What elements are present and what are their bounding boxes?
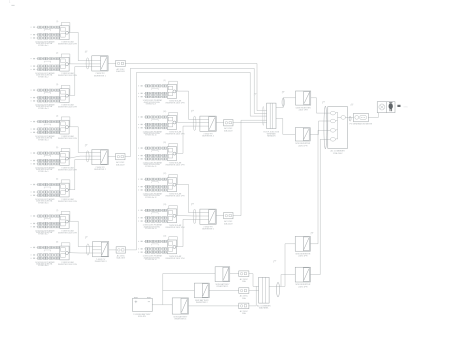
- AC disconnect D3: [116, 247, 125, 253]
- svg-text:240V 1PH: 240V 1PH: [298, 145, 308, 147]
- inverter G6 box: [60, 183, 69, 197]
- inverter I2 label: [295, 143, 311, 147]
- wire M1 to T4: [176, 91, 200, 119]
- PV string group M6: module rows: [138, 240, 167, 253]
- svg-text:240V 1PH: 240V 1PH: [298, 286, 308, 288]
- wire T5 to D5: [216, 215, 223, 217]
- AC disconnect D1: [116, 60, 125, 66]
- AC disconnect d2: [239, 288, 249, 294]
- wireway label: [264, 131, 280, 137]
- inverter G8 box: [60, 246, 69, 260]
- inverter G7 AC whip and junction: [56, 210, 70, 223]
- PV string group G3: module rows: [31, 89, 60, 102]
- wire bus to B1: [163, 273, 215, 275]
- AC disconnect d1 label: [240, 278, 249, 283]
- group M2 labels: [143, 130, 185, 136]
- wire wireway to I1: [276, 98, 296, 108]
- generation meter label: [350, 123, 373, 126]
- inverter G2 box: [60, 57, 69, 71]
- svg-text:STRING No.5: STRING No.5: [38, 171, 48, 173]
- string inverter T3: [93, 242, 109, 257]
- svg-text:60A PANEL: 60A PANEL: [259, 307, 269, 310]
- riser tag above I3: [311, 232, 313, 234]
- group M2 jumper bracket: [152, 120, 159, 121]
- svg-text:INVERTER 240V 1PH: INVERTER 240V 1PH: [58, 170, 77, 172]
- AC disconnect D2 label: [116, 161, 125, 166]
- group M5 labels: [143, 224, 185, 230]
- svg-text:INVERTER 1: INVERTER 1: [217, 286, 230, 288]
- string inverter T1: [92, 56, 108, 71]
- svg-text:INVERTER 240V 1PH: INVERTER 240V 1PH: [166, 227, 185, 229]
- battery inverter B1 label: [215, 283, 230, 288]
- svg-text:INVERTER 240V 1PH: INVERTER 240V 1PH: [58, 201, 77, 203]
- backup panel label: [257, 305, 271, 310]
- group M1 jumper bracket: [152, 88, 159, 89]
- battery inverter B2 label: [195, 299, 210, 304]
- battery BT: [133, 297, 153, 311]
- AC disconnect d3: [239, 303, 249, 309]
- wire G8 to T3: [69, 252, 93, 254]
- wire B2 to d2: [209, 290, 239, 292]
- wire I4 riser to combiner: [310, 139, 330, 274]
- group G1 labels: [35, 41, 77, 47]
- backup panel BP: [259, 277, 270, 303]
- string inverter T5 label: [202, 227, 215, 231]
- inverter M5 box: [167, 209, 176, 223]
- group G2 labels: [35, 72, 77, 78]
- inverter G8 AC whip and junction: [56, 241, 70, 254]
- inverter G3 box: [60, 89, 69, 103]
- AC disconnect D5: [224, 213, 233, 219]
- conduit C1: [86, 58, 89, 69]
- inverter I1 label: [296, 107, 312, 111]
- wire panel branch to I4: [281, 275, 295, 287]
- group M5 jumper bracket: [152, 213, 159, 214]
- inverter M4 box: [167, 178, 176, 192]
- PV string group M2: module rows: [138, 116, 167, 129]
- svg-text:(12): (12): [163, 173, 167, 175]
- svg-text:240V 1PH: 240V 1PH: [299, 110, 309, 112]
- inverter I4: [295, 267, 310, 282]
- string inverter T5: [200, 209, 216, 224]
- inverter G1 AC whip and junction: [56, 21, 70, 34]
- string inverter T3 label: [95, 259, 108, 263]
- inverter M1 box: [167, 85, 176, 99]
- svg-text:STRING No.4: STRING No.4: [38, 139, 48, 141]
- inverter M6 box: [167, 240, 176, 254]
- wire battery to B3: [152, 304, 172, 306]
- svg-text:(11): (11): [163, 142, 166, 144]
- svg-text:240V 1PH: 240V 1PH: [298, 256, 308, 258]
- conduit left of wireway: [262, 106, 264, 125]
- conduit C2: [86, 151, 89, 162]
- AC disconnect D3 label: [116, 254, 125, 259]
- string inverter T4: [200, 116, 216, 131]
- string inverter T1 label: [94, 73, 107, 77]
- svg-text:(14): (14): [163, 235, 167, 237]
- sheet corner note: [9, 1, 15, 6]
- wire B3 to d3: [189, 305, 239, 307]
- AC run D5 to wireway: [233, 120, 267, 215]
- PV string group G2: module rows: [31, 58, 60, 71]
- inverter G7 box: [60, 215, 69, 229]
- AC run D2 to wireway: [125, 68, 267, 156]
- svg-text:INVERTER 240V 1PH: INVERTER 240V 1PH: [58, 138, 77, 140]
- svg-text:STRING No.9: STRING No.9: [146, 104, 156, 106]
- svg-text:STRING No.13: STRING No.13: [145, 228, 156, 230]
- group G5 labels: [35, 166, 77, 172]
- utility label: [397, 105, 400, 107]
- PV string group G8: module rows: [31, 246, 60, 259]
- AC disconnect D5 label: [224, 220, 233, 225]
- svg-text:INVERTER 240V 1PH: INVERTER 240V 1PH: [58, 107, 77, 109]
- battery inverter B1: [215, 267, 230, 282]
- svg-text:STRING No.3: STRING No.3: [38, 108, 48, 110]
- PV string group M3: module rows: [138, 147, 167, 160]
- inverter I3 label: [295, 253, 311, 257]
- svg-text:INVERTER 2: INVERTER 2: [94, 169, 107, 171]
- group M6 labels: [143, 255, 185, 261]
- svg-text:STRING No.12: STRING No.12: [145, 197, 156, 199]
- bottom conduit: [277, 282, 280, 297]
- wire G5 to T2: [69, 156, 92, 158]
- group M3 labels: [143, 161, 185, 167]
- inverter M3 box: [167, 147, 176, 161]
- svg-text:INVERTER 240V 1PH: INVERTER 240V 1PH: [166, 165, 185, 167]
- group M6 jumper bracket: [152, 244, 159, 245]
- group G8 labels: [35, 261, 77, 267]
- inverter M1 AC whip and junction: [163, 80, 177, 93]
- conduit C5: [193, 209, 196, 224]
- svg-text:INVERTER 1: INVERTER 1: [94, 75, 107, 77]
- inverter G3 AC whip and junction: [56, 84, 70, 97]
- battery inverter B2: [194, 283, 209, 298]
- battery inverter B3: [172, 298, 188, 314]
- svg-text:(10): (10): [163, 111, 167, 113]
- string inverter T2: [92, 150, 108, 165]
- PV string group M1: module rows: [138, 85, 167, 98]
- group M3 jumper bracket: [152, 151, 159, 152]
- inverter G4 box: [60, 120, 69, 134]
- group M4 labels: [143, 193, 185, 199]
- svg-text:PV GENERATION METER: PV GENERATION METER: [350, 123, 373, 126]
- wire M5 to T5: [176, 215, 200, 218]
- svg-text:INVERTER 3: INVERTER 3: [174, 319, 187, 321]
- svg-text:NEMA 3R: NEMA 3R: [267, 135, 276, 138]
- svg-text:STRING No.11: STRING No.11: [145, 166, 156, 168]
- group G8 jumper bracket: [44, 250, 51, 251]
- battery label: [133, 313, 151, 318]
- svg-text:STRING No.6: STRING No.6: [38, 202, 48, 204]
- svg-text:STRING No.10: STRING No.10: [145, 135, 156, 137]
- AC disconnect d1: [239, 271, 249, 277]
- AC run D4 to wireway: [233, 122, 267, 124]
- inverter G4 AC whip and junction: [56, 116, 70, 129]
- wire bus to B2: [163, 290, 195, 292]
- PV string group M5: module rows: [138, 209, 167, 222]
- inverter I4 label: [295, 284, 311, 288]
- svg-text:(13): (13): [163, 204, 167, 206]
- svg-text:ESS 48V: ESS 48V: [138, 316, 146, 318]
- group M1 labels: [143, 99, 185, 105]
- battery inverter B3 label: [173, 315, 188, 320]
- svg-text:STRING No.1: STRING No.1: [38, 45, 48, 47]
- PV string group G4: module rows: [31, 121, 60, 134]
- wire M3 to T4: [176, 126, 200, 153]
- conduit C3: [86, 244, 89, 255]
- svg-text:60A 240V: 60A 240V: [116, 163, 125, 166]
- string inverter T2 label: [94, 167, 107, 171]
- svg-text:INVERTER 240V 1PH: INVERTER 240V 1PH: [166, 258, 185, 260]
- group G7 jumper bracket: [44, 219, 51, 220]
- AC run D1 to wireway: [125, 64, 266, 111]
- inverter M3 AC whip and junction: [163, 142, 177, 155]
- AC combiner panel CP: [328, 107, 348, 149]
- svg-text:60A 240V: 60A 240V: [116, 257, 125, 260]
- svg-text:INVERTER 4: INVERTER 4: [202, 136, 215, 138]
- svg-text:INVERTER 240V 1PH: INVERTER 240V 1PH: [166, 102, 185, 104]
- svg-text:INVERTER 240V 1PH: INVERTER 240V 1PH: [58, 233, 77, 235]
- AC disconnect D2: [116, 154, 125, 160]
- utility meter and pole US: [377, 102, 395, 113]
- svg-text:STRING No.2: STRING No.2: [38, 76, 48, 78]
- svg-text:STRING No.8: STRING No.8: [38, 265, 48, 267]
- wire G6 to T2: [69, 160, 92, 190]
- combiner conduit: [324, 106, 327, 149]
- wire G2 to T1: [69, 63, 92, 65]
- group G7 labels: [35, 229, 77, 235]
- wire G7 to T3: [69, 221, 93, 246]
- PV string group G7: module rows: [31, 215, 60, 228]
- wire I2 to combiner: [310, 121, 330, 134]
- wire d3 to panel: [249, 286, 256, 306]
- PV string group G1: module rows: [31, 26, 60, 39]
- svg-text:INVERTER 5: INVERTER 5: [202, 229, 215, 231]
- inverter G2 AC whip and junction: [56, 53, 70, 66]
- svg-text:125A 240V: 125A 240V: [333, 152, 343, 155]
- wire T2 to D2: [108, 156, 115, 158]
- svg-text:INVERTER 3: INVERTER 3: [95, 261, 108, 263]
- string inverter T4 label: [202, 134, 215, 138]
- svg-text:GRID: GRID: [403, 106, 408, 108]
- wire T1 to D1: [108, 63, 116, 65]
- AC disconnect D4 label: [224, 127, 233, 132]
- wire d1 to panel: [249, 274, 259, 287]
- combiner label: [331, 150, 346, 155]
- svg-text:60A 240V: 60A 240V: [224, 129, 233, 132]
- group G1 jumper bracket: [44, 30, 51, 31]
- generation meter GM: [354, 113, 369, 122]
- wire T3 to D3: [109, 249, 116, 251]
- inverter M4 AC whip and junction: [163, 173, 177, 186]
- conduit C4: [193, 116, 196, 131]
- riser tag on AC run: [254, 94, 256, 96]
- inverter M6 AC whip and junction: [163, 235, 177, 248]
- inverter I2: [295, 128, 310, 141]
- svg-text:INVERTER 240V 1PH: INVERTER 240V 1PH: [166, 134, 185, 136]
- svg-text:INVERTER 240V 1PH: INVERTER 240V 1PH: [58, 264, 77, 266]
- inverter G5 AC whip and junction: [56, 147, 70, 160]
- wire meter to utility: [368, 113, 378, 118]
- wire d2 to panel: [249, 290, 259, 292]
- group G2 jumper bracket: [44, 61, 51, 62]
- group G3 jumper bracket: [44, 93, 51, 94]
- svg-text:STRING No.7: STRING No.7: [38, 234, 48, 236]
- AC disconnect d2 label: [240, 295, 249, 300]
- battery DC bus: [162, 274, 164, 305]
- svg-text:60A 240V: 60A 240V: [224, 222, 233, 225]
- inverter M5 AC whip and junction: [163, 204, 177, 217]
- wire combiner to meter: [348, 116, 354, 118]
- group G4 labels: [35, 135, 77, 141]
- AC disconnect d3 label: [240, 310, 249, 315]
- group G6 jumper bracket: [44, 187, 51, 188]
- svg-text:INVERTER 2: INVERTER 2: [196, 302, 209, 304]
- wire I1 to combiner: [311, 98, 331, 113]
- wire G4 to T2: [69, 127, 92, 153]
- wire M4 to T5: [176, 184, 200, 212]
- wire B1 to d1: [230, 273, 239, 275]
- PV string group M4: module rows: [138, 178, 167, 191]
- PV string group G6: module rows: [31, 183, 60, 196]
- AC disconnect D4: [224, 120, 233, 126]
- wireway W1: [267, 103, 276, 129]
- PV string group G5: module rows: [31, 152, 60, 165]
- wire panel to I3: [269, 244, 295, 287]
- inverter I3: [295, 236, 310, 251]
- svg-text:STRING No.14: STRING No.14: [145, 259, 156, 261]
- group G4 jumper bracket: [44, 124, 51, 125]
- wire M2 to T4: [176, 121, 200, 124]
- inverter G1 box: [60, 26, 69, 40]
- wire M6 to T5: [176, 219, 200, 246]
- wire G3 to T1: [69, 67, 92, 96]
- conduit on I1 feed: [282, 98, 284, 106]
- group G6 labels: [35, 198, 77, 204]
- wire G1 to T1: [69, 32, 92, 60]
- inverter I1: [296, 91, 311, 105]
- group M4 jumper bracket: [152, 182, 159, 183]
- svg-text:INVERTER 240V 1PH: INVERTER 240V 1PH: [58, 75, 77, 77]
- inverter M2 box: [167, 116, 176, 130]
- wire wireway to I2: [276, 119, 295, 135]
- wire I3 riser to combiner: [310, 130, 330, 244]
- inverter G5 box: [60, 152, 69, 166]
- AC disconnect D1 label: [116, 68, 125, 73]
- wire T4 to D4: [216, 122, 223, 124]
- group G5 jumper bracket: [44, 156, 51, 157]
- inverter M2 AC whip and junction: [163, 111, 177, 124]
- AC run D3 to wireway: [126, 72, 267, 250]
- svg-text:INVERTER 240V 1PH: INVERTER 240V 1PH: [166, 196, 185, 198]
- svg-text:INVERTER 240V 1PH: INVERTER 240V 1PH: [58, 44, 77, 46]
- svg-text:60A 240V: 60A 240V: [116, 70, 125, 73]
- group G3 labels: [35, 103, 77, 109]
- inverter G6 AC whip and junction: [56, 178, 70, 191]
